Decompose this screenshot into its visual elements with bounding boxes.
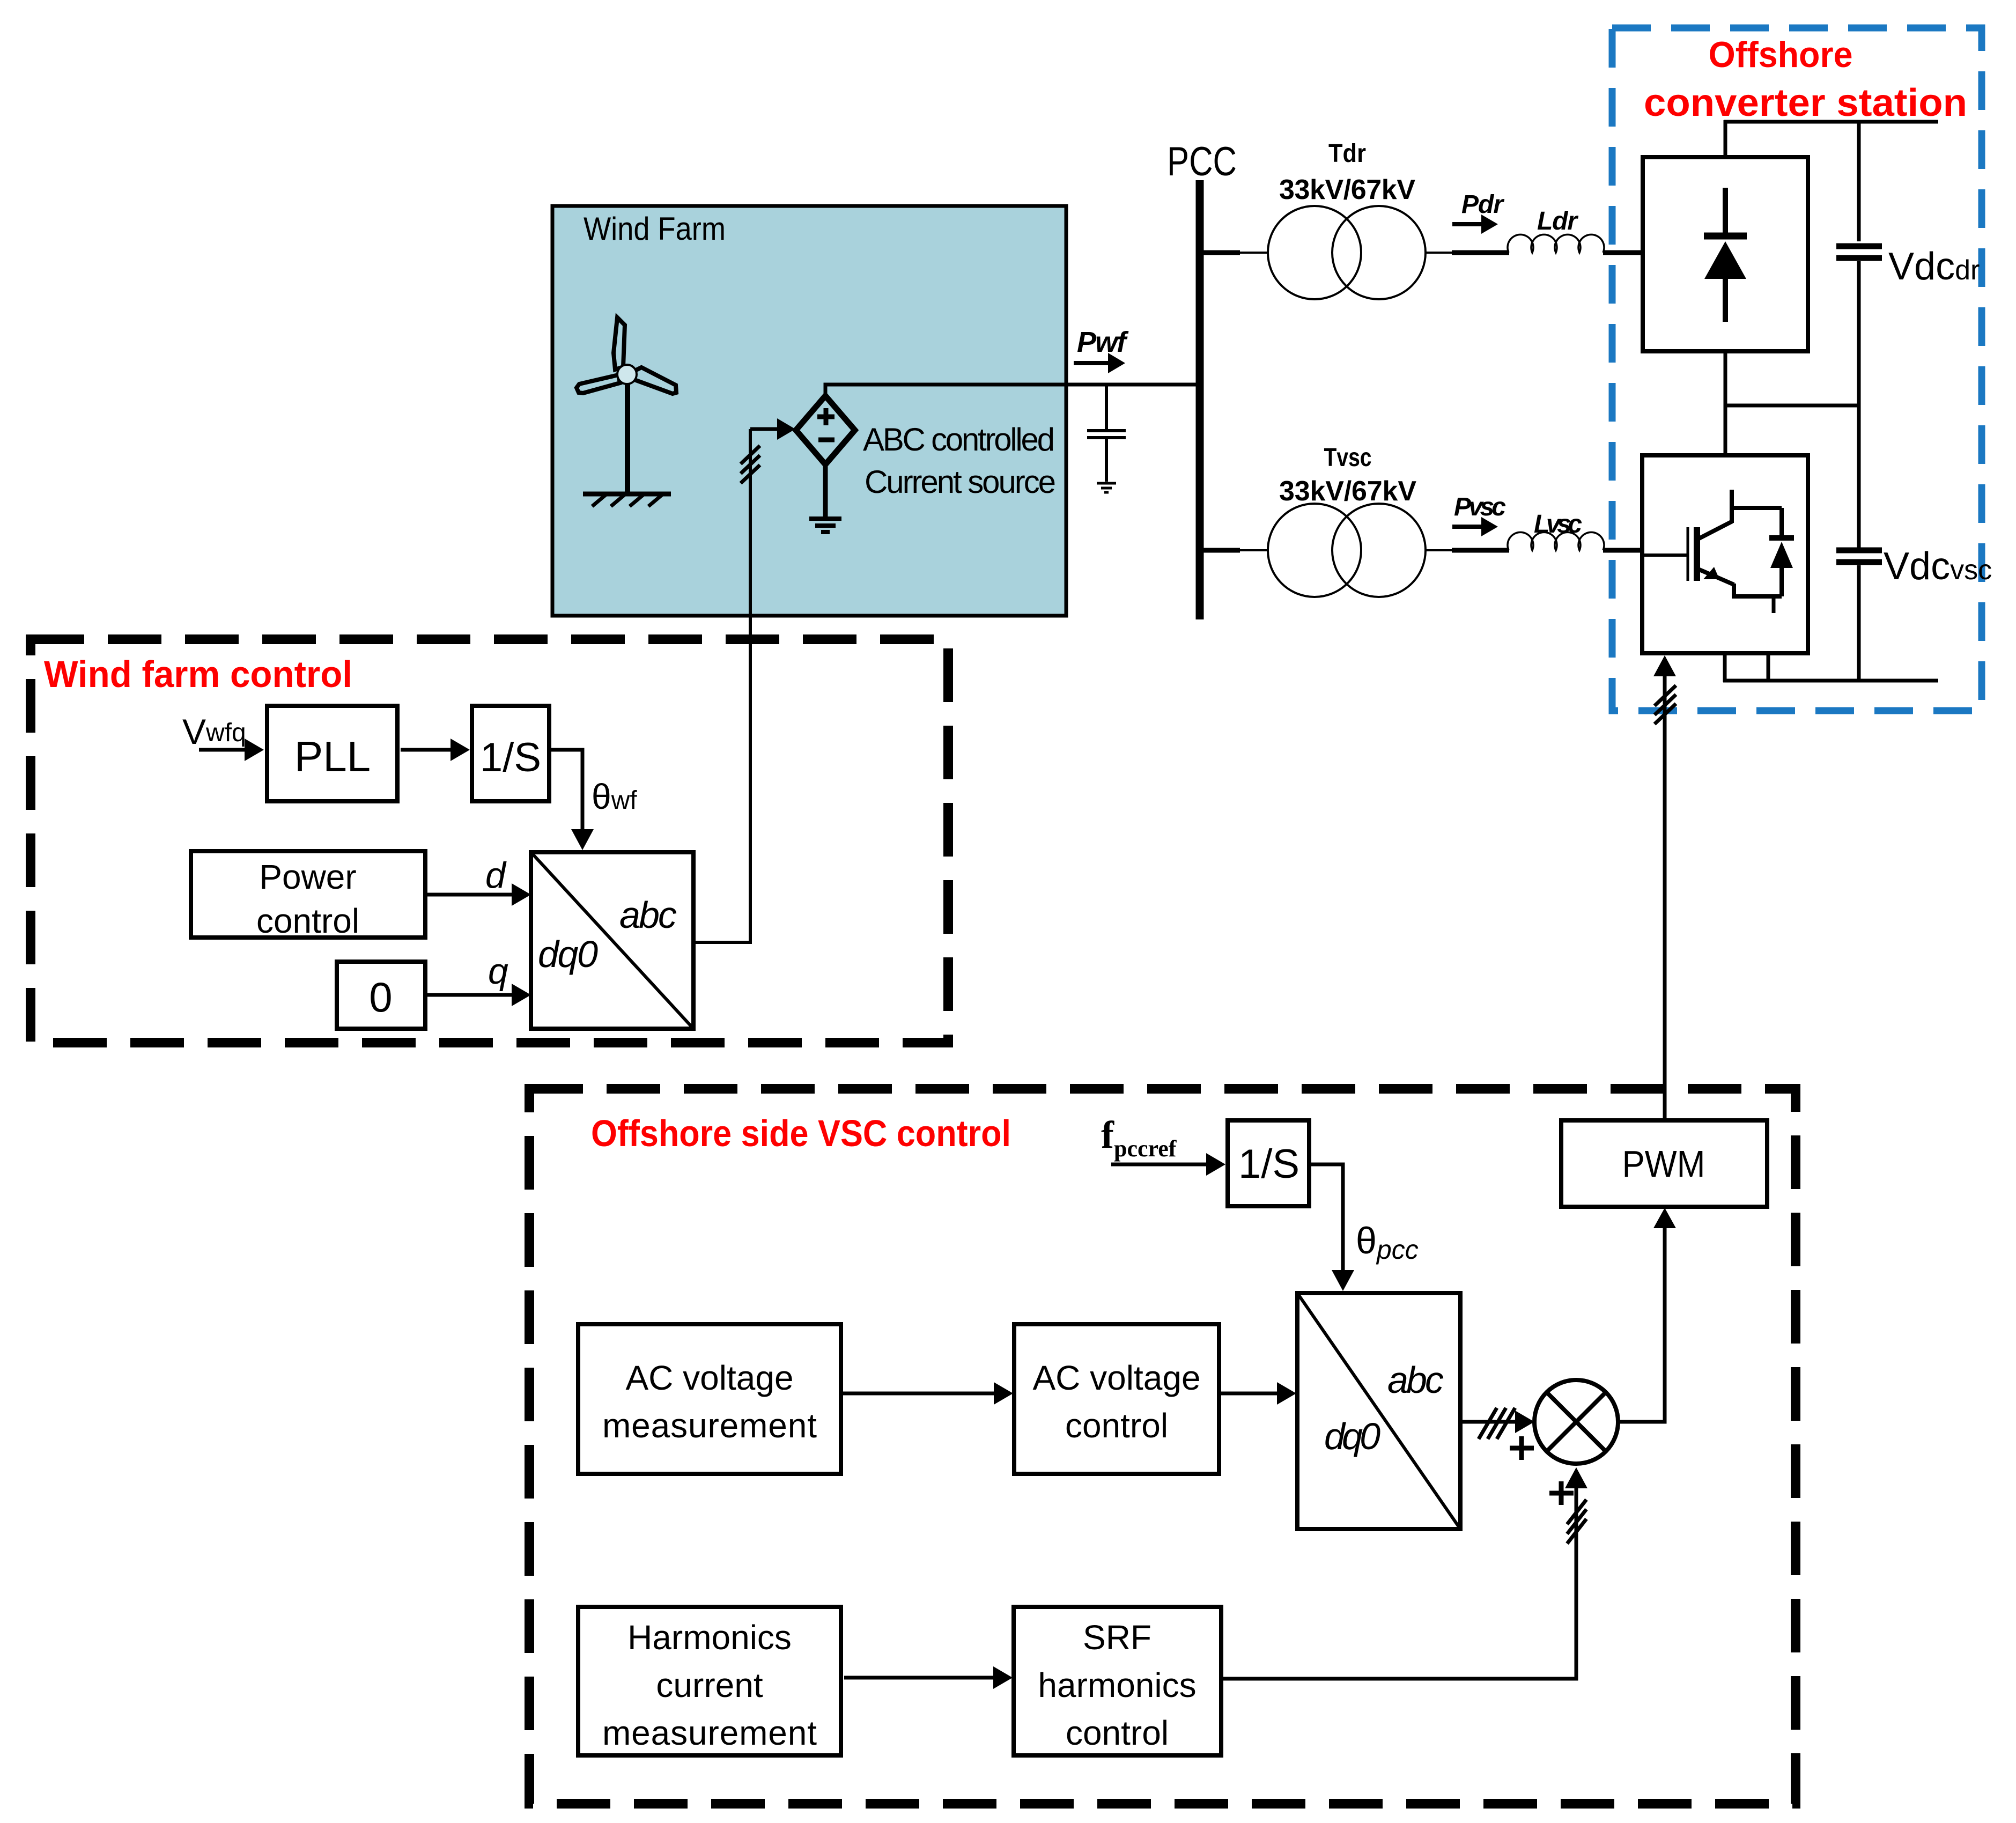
wire diamond bottom lead xyxy=(823,464,828,517)
svg-text:AC voltage: AC voltage xyxy=(1032,1359,1200,1397)
svg-text:Power: Power xyxy=(259,858,356,896)
svg-text:0: 0 xyxy=(369,973,392,1021)
PCC busbar xyxy=(1196,180,1204,619)
wire Tvsc to Lvsc xyxy=(1426,549,1452,551)
arrow Vwfq into PLL xyxy=(199,748,246,752)
wire collector to antiparallel diode xyxy=(1730,506,1782,510)
wind turbine hub xyxy=(617,365,637,384)
wire rectifier bottom to VSC top xyxy=(1724,351,1727,455)
svg-text:Tdr: Tdr xyxy=(1328,139,1366,168)
arrow fpccref into 1/S xyxy=(1111,1163,1207,1167)
IGBT emitter lead xyxy=(1734,584,1782,596)
svg-text:33kV/67kV: 33kV/67kV xyxy=(1279,476,1416,507)
dq0 to abc transform box (wind farm control) xyxy=(531,852,693,1029)
wire transform output to control line xyxy=(693,941,752,944)
offshore converter station dashed boundary xyxy=(1612,28,1982,711)
transformer Tvsc circles xyxy=(1268,504,1361,597)
wire transform to multiplier with slashes xyxy=(1460,1420,1518,1424)
arrow Pdr xyxy=(1452,222,1483,226)
wire Lvsc to VSC xyxy=(1603,548,1643,553)
svg-text:Harmonics: Harmonics xyxy=(627,1618,792,1657)
ground below shunt capacitor xyxy=(1097,483,1116,492)
wind turbine ground hatch xyxy=(592,495,662,506)
shunt capacitor plates xyxy=(1087,431,1126,438)
svg-text:current: current xyxy=(656,1666,763,1704)
IGBT emitter diagonal with arrow xyxy=(1697,569,1734,585)
svg-text:Wind Farm: Wind Farm xyxy=(584,211,726,247)
svg-text:SRF: SRF xyxy=(1083,1618,1151,1657)
svg-text:abc: abc xyxy=(1387,1359,1444,1401)
svg-text:Pwf: Pwf xyxy=(1077,326,1129,358)
svg-text:AC voltage: AC voltage xyxy=(625,1359,793,1397)
transform box diagonal xyxy=(1297,1293,1460,1529)
svg-text:q: q xyxy=(488,951,508,992)
shunt capacitor lead top xyxy=(1105,385,1108,429)
svg-text:PWM: PWM xyxy=(1622,1143,1705,1185)
AC voltage control box xyxy=(1014,1324,1219,1474)
arrow harmonics measurement to SRF control xyxy=(844,1676,995,1680)
svg-text:ABC controlled: ABC controlled xyxy=(863,422,1055,457)
IGBT Q1 gate lead xyxy=(1642,553,1688,557)
svg-text:harmonics: harmonics xyxy=(1038,1666,1196,1704)
dq0 to abc transform box (VSC control) xyxy=(1297,1293,1460,1529)
control wire from wind farm control to current source xyxy=(749,429,752,942)
arrow control to transform xyxy=(1219,1392,1279,1396)
shunt capacitor lead bottom xyxy=(1105,439,1108,482)
wire rectifier to DC top rail xyxy=(1724,120,1727,157)
DC mid rail xyxy=(1725,404,1859,408)
svg-text:converter station: converter station xyxy=(1644,82,1967,124)
DC top rail xyxy=(1724,120,1938,124)
wire multiplier to PWM xyxy=(1618,1227,1665,1422)
svg-text:control: control xyxy=(1065,1406,1168,1445)
svg-text:dq0: dq0 xyxy=(538,933,598,975)
svg-text:Ldr: Ldr xyxy=(1537,207,1578,235)
diode rectifier box U1 xyxy=(1643,157,1808,351)
arrow d into transform xyxy=(425,893,514,897)
svg-text:Current source: Current source xyxy=(865,464,1056,500)
svg-text:Offshore: Offshore xyxy=(1709,34,1853,75)
arrow q into transform xyxy=(425,993,514,997)
svg-text:d: d xyxy=(485,855,507,896)
svg-text:PCC: PCC xyxy=(1167,139,1237,184)
AC voltage measurement box xyxy=(578,1324,841,1474)
svg-text:measurement: measurement xyxy=(602,1714,817,1752)
wire from diamond top to Pwf node xyxy=(825,385,1200,396)
wind turbine tower xyxy=(625,382,630,494)
plus sign at multiplier bottom input xyxy=(1549,1481,1574,1505)
three-phase slashes on control wire xyxy=(741,446,760,483)
emitter terminal stub xyxy=(1772,596,1776,613)
Harmonics current measurement box xyxy=(578,1607,841,1755)
multiplier circle xyxy=(1534,1380,1618,1464)
DC bottom rail xyxy=(1723,679,1938,683)
integrator box 1/S (VSC control) xyxy=(1228,1120,1309,1206)
capacitor Vdcdr plates xyxy=(1836,246,1882,258)
SRF harmonics control box xyxy=(1014,1607,1221,1755)
DC link wire with capacitors xyxy=(1857,122,1861,241)
inductor Lvsc xyxy=(1508,532,1604,550)
svg-text:Pdr: Pdr xyxy=(1461,190,1504,219)
IGBT gate bar xyxy=(1687,527,1689,581)
svg-text:dq0: dq0 xyxy=(1324,1415,1380,1457)
wind turbine ground line xyxy=(583,492,671,497)
arrow Pvsc xyxy=(1452,525,1483,529)
wire harmonics to multiplier bottom xyxy=(1221,1486,1576,1679)
svg-text:abc: abc xyxy=(619,894,677,936)
IGBT body bar xyxy=(1694,527,1700,581)
zero reference box xyxy=(337,962,425,1029)
wind farm control dashed boundary xyxy=(31,639,948,1043)
integrator box 1/S xyxy=(472,706,549,801)
transform box diagonal xyxy=(531,852,693,1029)
capacitor Vdcvsc plates xyxy=(1836,550,1882,562)
minus sign in diamond xyxy=(818,438,835,442)
wire 1/S to dq0 transform (VSC control) xyxy=(1309,1164,1343,1272)
Power control box xyxy=(191,851,425,938)
arrow into diamond control input xyxy=(750,427,780,431)
wind turbine left blade xyxy=(577,375,620,393)
offshore side VSC control dashed boundary xyxy=(529,1089,1796,1804)
arrow Pwf xyxy=(1074,361,1111,365)
plus sign at multiplier left input xyxy=(1510,1436,1534,1460)
svg-text:Offshore side VSC control: Offshore side VSC control xyxy=(591,1112,1011,1154)
wire PCC to Tvsc xyxy=(1200,548,1240,553)
wind turbine top blade xyxy=(614,318,625,370)
svg-text:33kV/67kV: 33kV/67kV xyxy=(1279,174,1415,205)
IGBT collector diagonal xyxy=(1697,521,1732,540)
wire 1/S to dq0 transform xyxy=(549,750,582,831)
arrow PLL to 1/S xyxy=(401,748,452,752)
svg-text:Lvsc: Lvsc xyxy=(1534,510,1582,538)
svg-text:1/S: 1/S xyxy=(1238,1141,1299,1187)
wire PCC to Tdr xyxy=(1200,250,1240,255)
arrow measurement to control xyxy=(841,1392,995,1396)
wire Tdr to Ldr xyxy=(1426,252,1452,254)
VSC converter box U2 xyxy=(1642,455,1808,653)
wind farm block (shaded region) xyxy=(552,206,1066,616)
svg-text:measurement: measurement xyxy=(602,1406,817,1445)
svg-text:PLL: PLL xyxy=(294,733,371,780)
svg-text:control: control xyxy=(1066,1714,1169,1752)
PWM gate signal wire to VSC xyxy=(1663,673,1667,1120)
antiparallel diode D1 xyxy=(1779,508,1784,538)
plus sign in diamond xyxy=(817,408,835,425)
slashes on harmonics wire xyxy=(1567,1500,1586,1544)
controlled current source diamond xyxy=(796,396,855,464)
svg-text:control: control xyxy=(256,902,359,940)
diode symbol in rectifier xyxy=(1723,188,1728,236)
PLL box xyxy=(267,706,397,801)
svg-text:Tvsc: Tvsc xyxy=(1324,444,1372,472)
svg-text:Pvsc: Pvsc xyxy=(1454,493,1506,521)
VSC bottom stubs to DC bottom rail xyxy=(1723,653,1727,682)
svg-text:Wind farm control: Wind farm control xyxy=(44,653,352,695)
ground below current source xyxy=(809,519,841,532)
PWM box xyxy=(1561,1120,1767,1207)
wire Ldr to rectifier xyxy=(1603,250,1643,255)
inductor Ldr xyxy=(1508,234,1604,253)
slashes on gate signal wire xyxy=(1655,685,1676,724)
wind turbine right blade xyxy=(634,367,676,394)
transformer Tdr circles xyxy=(1268,206,1361,299)
IGBT collector lead xyxy=(1730,490,1734,523)
svg-text:1/S: 1/S xyxy=(480,735,541,780)
